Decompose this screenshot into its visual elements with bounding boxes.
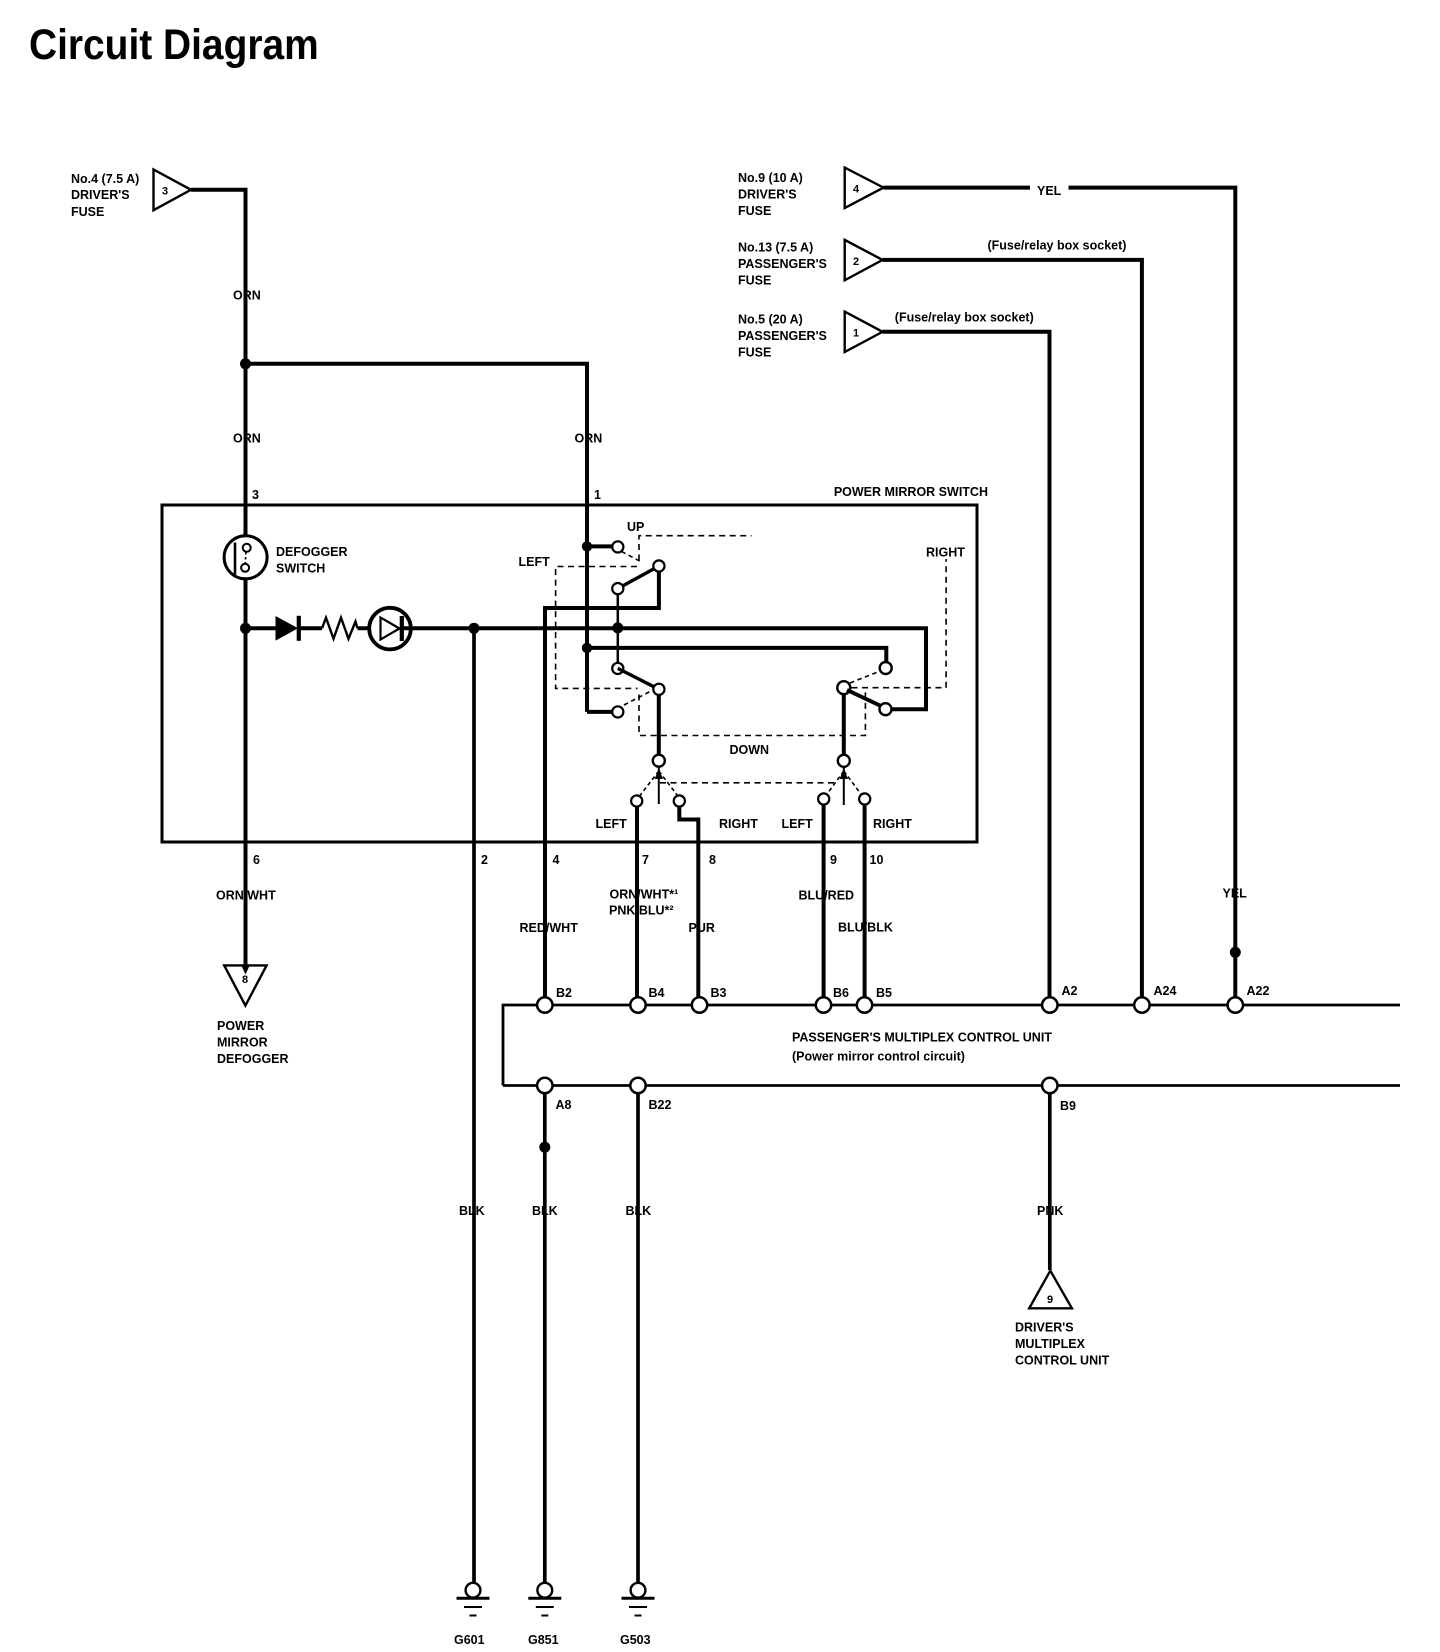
dashed arm alternate right (850, 672, 879, 684)
svg-text:9: 9 (1047, 1294, 1053, 1306)
dashed selector diagonals right (826, 771, 844, 796)
svg-text:4: 4 (853, 184, 860, 196)
svg-text:MULTIPLEX: MULTIPLEX (1015, 1337, 1086, 1351)
svg-text:SWITCH: SWITCH (276, 562, 325, 576)
svg-text:FUSE: FUSE (71, 205, 104, 219)
wire thick L to pin 4 (545, 572, 659, 998)
wire pin 10 down to B5 (863, 805, 867, 998)
right switch upper contact terminal (880, 662, 892, 674)
wire main feed to right mirror switch (402, 628, 926, 709)
diode D (276, 616, 299, 641)
svg-text:PASSENGER'S MULTIPLEX CONTROL: PASSENGER'S MULTIPLEX CONTROL UNIT (792, 1031, 1052, 1045)
connector pin B4 (630, 997, 645, 1012)
svg-text:No.9 (10 A): No.9 (10 A) (738, 171, 803, 185)
node junction UP feed (582, 541, 592, 551)
wire pin 7 down to B4 (635, 807, 639, 998)
connector pin B3 (692, 997, 707, 1012)
left switch LEFT terminal (631, 795, 642, 806)
wire YEL continues down right side (1069, 188, 1236, 997)
wire branch to pin 1 (246, 364, 588, 505)
svg-text:DEFOGGER: DEFOGGER (276, 545, 348, 559)
svg-text:A2: A2 (1062, 984, 1078, 998)
connector pin A22 (1228, 997, 1243, 1012)
svg-text:9: 9 (830, 853, 837, 867)
svg-text:ORN: ORN (233, 289, 261, 303)
dashed arm alternate lower (624, 692, 650, 706)
wire UP contact stub (587, 544, 612, 548)
power mirror switch box (162, 505, 977, 842)
svg-text:B6: B6 (833, 986, 849, 1000)
svg-text:G503: G503 (620, 1633, 651, 1647)
svg-text:2: 2 (853, 256, 859, 268)
UP contact terminal (612, 541, 623, 552)
wire B22 BLK down to G503 (636, 1094, 640, 1583)
svg-text:BLK: BLK (459, 1204, 485, 1218)
connector pin B22 (630, 1078, 645, 1093)
svg-text:(Fuse/relay box socket): (Fuse/relay box socket) (988, 239, 1127, 253)
wire A8 BLK down to G851 (543, 1094, 547, 1583)
svg-text:B9: B9 (1060, 1099, 1076, 1113)
left actuator knob (653, 755, 665, 767)
svg-text:B2: B2 (556, 986, 572, 1000)
svg-text:(Fuse/relay box socket): (Fuse/relay box socket) (895, 311, 1034, 325)
node junction on feed (612, 622, 623, 633)
node splice on A8 wire (539, 1142, 550, 1153)
svg-text:FUSE: FUSE (738, 204, 771, 218)
wire (358, 626, 381, 630)
svg-text:No.13 (7.5 A): No.13 (7.5 A) (738, 241, 813, 255)
left actuator thin shaft (658, 767, 660, 804)
connector pin A2 (1042, 997, 1057, 1012)
connector pin B9 (1042, 1078, 1057, 1093)
passenger's multiplex control unit bottom rail (503, 1084, 1400, 1087)
right actuator knob (838, 755, 850, 767)
svg-text:PASSENGER'S: PASSENGER'S (738, 257, 827, 271)
svg-text:ORN: ORN (233, 432, 261, 446)
dashed arm alternate upper (622, 552, 642, 563)
connector pin B6 (816, 997, 831, 1012)
svg-text:FUSE: FUSE (738, 346, 771, 360)
svg-text:8: 8 (242, 974, 248, 986)
title (29, 20, 319, 68)
svg-text:LEFT: LEFT (782, 817, 814, 831)
svg-text:6: 6 (253, 853, 260, 867)
wire fuse 2 to A24 (883, 260, 1142, 997)
wire pin 9 down to B6 (822, 805, 826, 998)
svg-text:A8: A8 (556, 1098, 572, 1112)
wire pin1 vertical inside switch (585, 505, 589, 712)
wire pin 8 down to B3 (679, 807, 698, 998)
svg-text:RIGHT: RIGHT (719, 817, 758, 831)
left switch RIGHT terminal (674, 795, 685, 806)
node splice on YEL (1230, 947, 1241, 958)
svg-text:DOWN: DOWN (730, 743, 770, 757)
wire (299, 626, 322, 630)
wire lower contact stub from pin1 line (587, 710, 612, 714)
svg-text:LEFT: LEFT (519, 555, 551, 569)
node junction to pin 2 wire (469, 623, 480, 634)
svg-text:B22: B22 (649, 1098, 672, 1112)
svg-text:(Power mirror control circuit): (Power mirror control circuit) (792, 1050, 965, 1064)
svg-text:1: 1 (853, 328, 859, 340)
svg-text:G851: G851 (528, 1633, 559, 1647)
svg-text:DRIVER'S: DRIVER'S (71, 188, 130, 202)
fuse connector 1 (No.5 passenger's fuse) (738, 312, 883, 360)
dashed mechanical link (660, 782, 838, 784)
connector triangle 8 (power mirror defogger) (224, 965, 266, 1005)
svg-text:BLK: BLK (626, 1204, 652, 1218)
ground G851 (528, 1583, 561, 1647)
svg-text:YEL: YEL (1037, 184, 1062, 198)
node junction at defogger branch (240, 623, 251, 634)
svg-text:UP: UP (627, 520, 644, 534)
svg-text:PNK/BLU*²: PNK/BLU*² (609, 904, 674, 918)
svg-text:PUR: PUR (689, 921, 715, 935)
svg-text:PNK: PNK (1037, 1204, 1063, 1218)
svg-text:PASSENGER'S: PASSENGER'S (738, 329, 827, 343)
dashed LEFT box (556, 567, 638, 689)
connector pin A24 (1134, 997, 1149, 1012)
wire to right switch upper contact (587, 648, 886, 662)
svg-text:A22: A22 (1247, 984, 1270, 998)
svg-text:DRIVER'S: DRIVER'S (1015, 1321, 1074, 1335)
svg-text:1: 1 (594, 488, 601, 502)
svg-text:A24: A24 (1154, 984, 1177, 998)
svg-text:3: 3 (252, 488, 259, 502)
right switch arm (847, 690, 881, 706)
svg-text:MIRROR: MIRROR (217, 1036, 268, 1050)
svg-text:3: 3 (162, 186, 168, 198)
svg-text:No.4 (7.5 A): No.4 (7.5 A) (71, 172, 139, 186)
svg-text:YEL: YEL (1223, 887, 1248, 901)
lower-left contact terminal (612, 706, 623, 717)
connector pin B2 (537, 997, 552, 1012)
svg-text:No.5 (20 A): No.5 (20 A) (738, 313, 803, 327)
wire fuse 1 to A2 (883, 332, 1050, 997)
fuse connector 4 (No.9 driver's fuse) (738, 168, 884, 218)
wire main feed horizontal (246, 626, 277, 630)
svg-text:ORN: ORN (575, 432, 603, 446)
svg-text:ORN/WHT*¹: ORN/WHT*¹ (610, 888, 679, 902)
svg-text:G601: G601 (454, 1633, 485, 1647)
svg-text:ORN/WHT: ORN/WHT (216, 889, 276, 903)
ground G601 (454, 1583, 490, 1647)
fuse connector 3 (No.4 driver's fuse) (71, 170, 191, 220)
connector pin B5 (857, 997, 872, 1012)
wire ORN below defogger switch down to pin 6 and beyond (244, 579, 248, 966)
right actuator thin shaft (843, 767, 845, 805)
node junction on ORN (240, 358, 251, 369)
fuse connector 2 (No.13 passenger's fuse) (738, 240, 883, 288)
svg-text:B4: B4 (649, 986, 665, 1000)
svg-text:RIGHT: RIGHT (926, 546, 965, 560)
wire thin vertical through feed (617, 594, 620, 662)
connector pin A8 (537, 1078, 552, 1093)
switch arm lower-left (612, 663, 664, 695)
svg-text:FUSE: FUSE (738, 274, 771, 288)
dashed DOWN box (639, 688, 865, 736)
svg-text:RIGHT: RIGHT (873, 817, 912, 831)
ground G503 (620, 1583, 655, 1647)
svg-text:DRIVER'S: DRIVER'S (738, 188, 797, 202)
connector triangle 9 (driver's multiplex control unit) (1029, 1271, 1072, 1309)
wire left actuator shaft thick (657, 695, 661, 755)
defogger switch (224, 536, 267, 579)
svg-text:RED/WHT: RED/WHT (520, 921, 579, 935)
svg-text:BLU/RED: BLU/RED (799, 889, 855, 903)
svg-text:7: 7 (642, 853, 649, 867)
svg-text:2: 2 (481, 853, 488, 867)
LED indicator U (369, 608, 411, 650)
dashed selector diagonals left (640, 771, 659, 796)
svg-text:POWER: POWER (217, 1019, 264, 1033)
svg-text:8: 8 (709, 853, 716, 867)
right switch LEFT terminal (818, 793, 829, 804)
svg-text:CONTROL UNIT: CONTROL UNIT (1015, 1354, 1110, 1368)
switch arm upper-left (612, 560, 664, 594)
node junction right-switch feed (582, 643, 592, 653)
svg-text:B3: B3 (711, 986, 727, 1000)
resistor (322, 618, 358, 639)
svg-text:POWER MIRROR SWITCH: POWER MIRROR SWITCH (834, 485, 988, 499)
svg-text:DEFOGGER: DEFOGGER (217, 1052, 289, 1066)
svg-text:BLU/BLK: BLU/BLK (838, 921, 893, 935)
svg-text:B5: B5 (876, 986, 892, 1000)
svg-text:LEFT: LEFT (596, 817, 628, 831)
passenger's multiplex control unit top rail (503, 1005, 1400, 1086)
wire right actuator shaft thick (842, 694, 846, 755)
right switch lower contact terminal (880, 703, 892, 715)
wire YEL from fuse 4 (884, 186, 1031, 190)
svg-text:4: 4 (553, 853, 560, 867)
svg-text:10: 10 (870, 853, 884, 867)
right switch RIGHT terminal (859, 793, 870, 804)
svg-text:Circuit Diagram: Circuit Diagram (29, 20, 319, 68)
wire B9 PNK down (1048, 1094, 1052, 1270)
right switch pivot (837, 681, 850, 694)
wire pin 2 down (BLK to G601) (472, 628, 476, 1583)
wire fuse3 to ORN vertical (191, 190, 246, 537)
svg-text:BLK: BLK (532, 1204, 558, 1218)
dashed UP box (639, 536, 752, 561)
